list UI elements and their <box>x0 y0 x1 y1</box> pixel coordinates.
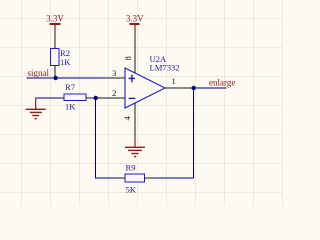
op-amp U2A LM7332 <box>125 54 180 108</box>
pin 1 of R7 <box>59 97 65 99</box>
pin 2 of R7 / wire to op-amp pin 2 <box>86 97 125 99</box>
pin 2 of R9 <box>145 177 156 179</box>
pin 3 of op-amp <box>105 77 125 79</box>
resistor R9 <box>125 163 145 195</box>
wire: signal net to op-amp pin 3 <box>27 77 106 79</box>
wire: feedback left vertical <box>95 98 97 178</box>
wire: feedback bottom right <box>155 177 194 179</box>
svg-text:enlarge: enlarge <box>209 78 235 88</box>
svg-text:1: 1 <box>171 76 175 86</box>
pin 8 of op-amp (V+) <box>134 33 136 73</box>
node A: junction of R2 and signal wire <box>53 76 57 80</box>
pin 1 of R9 <box>115 177 125 179</box>
resistor R2 <box>51 48 72 67</box>
wire: output to enlarge net <box>191 87 227 89</box>
ground (left, at R7) <box>26 98 46 119</box>
svg-text:LM7332: LM7332 <box>150 62 180 72</box>
wire: feedback bottom left <box>95 177 115 179</box>
svg-text:R9: R9 <box>126 163 136 173</box>
svg-text:2: 2 <box>112 88 116 98</box>
svg-text:3: 3 <box>112 68 116 78</box>
pin 1 of op-amp (output) <box>165 87 191 89</box>
node B: junction feedback / R7 / pin 2 <box>94 96 98 100</box>
svg-text:1K: 1K <box>65 101 76 111</box>
wire: ground to R7 pin 1 <box>36 97 59 99</box>
svg-text:R7: R7 <box>65 82 76 92</box>
wire: R2 pin 2 down to signal node <box>54 66 56 79</box>
ground (below op-amp pin 4) <box>125 139 145 157</box>
svg-text:3.3V: 3.3V <box>126 14 144 24</box>
power port 3.3V (above op-amp) <box>126 14 144 34</box>
power port 3.3V (left, above R2) <box>46 14 64 32</box>
wire: power to R2 pin 1 <box>54 32 56 49</box>
node C: output junction <box>192 86 196 90</box>
svg-text:1K: 1K <box>60 57 71 67</box>
svg-text:signal: signal <box>28 68 50 78</box>
svg-text:3.3V: 3.3V <box>46 14 64 24</box>
svg-text:8: 8 <box>123 56 133 60</box>
wire: feedback right vertical <box>193 88 195 179</box>
svg-text:5K: 5K <box>126 184 137 194</box>
resistor R7 <box>64 82 86 111</box>
pin 4 of op-amp (V-) <box>134 103 136 140</box>
